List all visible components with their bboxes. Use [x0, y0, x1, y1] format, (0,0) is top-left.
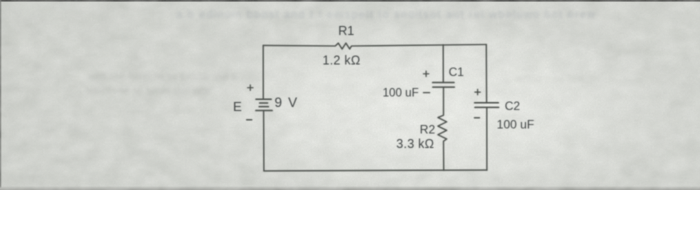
svg-text:E: E: [233, 99, 242, 114]
svg-text:100 uF: 100 uF: [383, 87, 419, 100]
svg-text:1.2 kΩ: 1.2 kΩ: [323, 54, 361, 68]
svg-text:C2: C2: [505, 99, 521, 113]
svg-text:R2: R2: [420, 122, 436, 136]
svg-text:R1: R1: [338, 24, 354, 38]
svg-text:C1: C1: [449, 65, 465, 79]
svg-text:3.3 kΩ: 3.3 kΩ: [396, 137, 434, 151]
svg-text:100 uF: 100 uF: [497, 118, 534, 132]
svg-text:9 V: 9 V: [275, 95, 299, 110]
